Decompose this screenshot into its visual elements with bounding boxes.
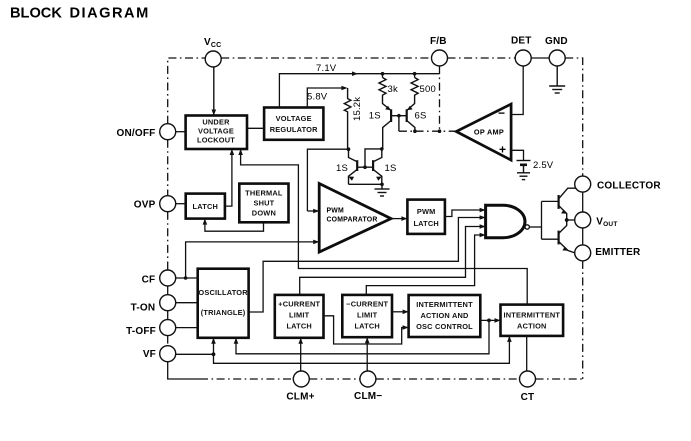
box U12 INTERMITTENT ACTION AND OSC CONTROL: [409, 295, 481, 337]
wire UVL-IA long net: [238, 149, 527, 305]
svg-text:COMPARATOR: COMPARATOR: [327, 217, 378, 224]
svg-text:−CURRENT: −CURRENT: [346, 299, 388, 308]
wire 7.1V net: [279, 71, 439, 107]
transistor Q2 6S (PNP right): [407, 96, 415, 131]
svg-text:PWM: PWM: [417, 207, 436, 216]
pin OVP: [134, 196, 176, 212]
wire comparator to PWM LATCH with arrow: [391, 216, 407, 221]
wire NAND input 3 (+current latch net): [300, 224, 486, 295]
node dot base tie: [397, 114, 401, 118]
wire VOUT node to pin: [567, 219, 575, 221]
svg-text:CT: CT: [521, 392, 535, 403]
wire VF net to intermittent action (bottom feedback): [214, 336, 512, 363]
svg-text:ACTION: ACTION: [517, 321, 547, 330]
svg-text:7.1V: 7.1V: [316, 63, 337, 74]
svg-text:3k: 3k: [388, 84, 398, 95]
wire vout-emitter link: [582, 228, 584, 245]
pin DET: [511, 36, 532, 67]
pin VF: [143, 346, 176, 362]
svg-text:T-ON: T-ON: [131, 302, 156, 313]
wire CF to oscillator: [176, 277, 198, 279]
svg-text:OVP: OVP: [134, 200, 156, 211]
svg-text:EMITTER: EMITTER: [595, 247, 641, 258]
node dot VOUT: [565, 218, 569, 222]
top bus dash-dot wire: [168, 58, 583, 176]
svg-text:LIMIT: LIMIT: [357, 310, 378, 319]
NAND gate U8: [486, 205, 530, 237]
op-amp U3: [456, 104, 511, 160]
svg-text:REGULATOR: REGULATOR: [270, 125, 318, 134]
wire NAND input 2 (oscillator net): [249, 215, 486, 312]
svg-text:LOCKOUT: LOCKOUT: [197, 136, 235, 145]
wire UVL to VOLTAGE REGULATOR: [247, 127, 264, 129]
wire PWM LATCH to NAND input 1: [445, 208, 486, 217]
svg-text:OSCILLATOR: OSCILLATOR: [198, 288, 248, 297]
node dot F/B vertical: [438, 129, 442, 133]
transistor Q3 1S (NPN mirror left): [348, 149, 357, 184]
svg-text:VOLTAGE: VOLTAGE: [198, 127, 234, 136]
pin VOUT: [575, 212, 618, 228]
resistor R1 15.2k: [344, 88, 351, 149]
pin COLLECTOR: [575, 176, 662, 192]
ground symbol at 2.5V: [517, 173, 530, 180]
svg-text:COLLECTOR: COLLECTOR: [597, 180, 661, 191]
ground symbol at mirror: [375, 184, 390, 196]
pin CF: [142, 270, 176, 286]
wire collector pin link: [582, 192, 584, 212]
svg-text:LATCH: LATCH: [413, 219, 439, 228]
wire base tie Q1-Q2: [391, 116, 407, 132]
box U2 VOLTAGE REGULATOR: [264, 108, 323, 140]
pin F/B: [430, 36, 448, 66]
node dot CF: [184, 276, 188, 280]
box U5 THERMAL SHUT DOWN: [239, 184, 288, 223]
pin T-OFF: [126, 320, 176, 337]
svg-text:15.2k: 15.2k: [352, 97, 363, 121]
box U1 UNDER VOLTAGE LOCKOUT: [186, 116, 247, 150]
svg-text:VF: VF: [143, 349, 156, 360]
box U13 INTERMITTENT ACTION: [501, 305, 564, 336]
svg-text:+: +: [499, 143, 506, 157]
node dot 15.2k bottom: [347, 147, 351, 151]
wire +C latch to IAOC: [324, 316, 409, 344]
svg-text:1S: 1S: [369, 111, 381, 122]
wire T-OFF to oscillator: [176, 327, 198, 329]
svg-text:1S: 1S: [336, 163, 348, 174]
wire -C latch to IAOC with arrow: [392, 310, 409, 315]
wire THERMAL SHUT DOWN to LATCH with arrow: [203, 219, 264, 232]
pin GND: [545, 36, 568, 66]
pin EMITTER: [575, 245, 641, 261]
svg-text:CLM−: CLM−: [354, 391, 382, 402]
box U10 +CURRENT LIMIT LATCH: [275, 295, 324, 338]
transistor Q1 1S (PNP left): [383, 96, 392, 148]
pin ON/OFF: [117, 124, 176, 140]
transistor Q4 1S (NPN mirror right, diode connected): [373, 149, 382, 184]
svg-text:THERMAL: THERMAL: [245, 189, 283, 198]
wire CLM+ to +C latch with arrow: [298, 338, 303, 371]
svg-text:LIMIT: LIMIT: [289, 310, 310, 319]
svg-text:INTERMITTENT: INTERMITTENT: [416, 300, 473, 309]
svg-text:F/B: F/B: [430, 36, 447, 47]
battery B1 2.5V: [517, 161, 531, 173]
wire DET to op-amp minus input: [511, 66, 523, 115]
svg-text:SHUT: SHUT: [253, 199, 274, 208]
svg-text:UNDER: UNDER: [202, 118, 230, 127]
right bus wire (emitter to bottom corner): [582, 261, 584, 379]
svg-text:OSC CONTROL: OSC CONTROL: [416, 322, 473, 331]
wire 5.8V net: [307, 86, 347, 108]
node dot IAOC output: [487, 319, 491, 323]
svg-text:GND: GND: [545, 36, 568, 47]
box U9 OSCILLATOR (TRIANGLE): [198, 269, 249, 338]
svg-text:LATCH: LATCH: [286, 321, 312, 330]
wire CT to IA: [526, 336, 528, 371]
svg-text:CF: CF: [142, 274, 156, 285]
node dot mirror base: [363, 165, 367, 169]
box U11 -CURRENT LIMIT LATCH: [342, 295, 392, 337]
wire comparator input 2 (CF net): [186, 240, 320, 278]
wire VF to junction: [176, 353, 214, 355]
node dot mirror right collector: [380, 147, 384, 151]
wire NAND input 4 (-current latch net): [366, 233, 485, 295]
wire ON/OFF to UVL: [176, 131, 186, 133]
wire op-amp plus input to 2.5V: [511, 150, 523, 160]
transistor Q6 (lower output NPN): [559, 220, 575, 253]
svg-text:ON/OFF: ON/OFF: [117, 128, 156, 139]
pin T-ON: [131, 295, 176, 314]
svg-text:DOWN: DOWN: [252, 209, 276, 218]
wire OVP to LATCH: [176, 203, 186, 205]
node dot 6S collector: [413, 129, 417, 133]
svg-text:LATCH: LATCH: [193, 202, 219, 211]
wire mirror emitter rail: [349, 183, 383, 185]
wire CLM- to -C latch with arrow: [365, 337, 370, 371]
box U4 LATCH: [186, 194, 225, 219]
svg-text:INTERMITTENT: INTERMITTENT: [504, 310, 561, 319]
node dot 500 top: [413, 72, 417, 76]
svg-text:LATCH: LATCH: [354, 321, 380, 330]
transistor Q5 (upper output NPN): [559, 188, 577, 220]
svg-text:CLM+: CLM+: [286, 392, 314, 403]
svg-text:+CURRENT: +CURRENT: [278, 299, 320, 308]
wire NAND output to driver bases: [530, 201, 559, 239]
svg-text:ACTION AND: ACTION AND: [420, 311, 469, 320]
svg-text:6S: 6S: [415, 110, 427, 121]
ground symbol at GND pin: [549, 66, 565, 93]
resistor R2 3k: [379, 74, 386, 96]
pin VCC: [204, 37, 221, 67]
wire T-ON to oscillator: [176, 302, 198, 304]
comparator U6 PWM COMPARATOR: [319, 184, 391, 253]
svg-text:PWM: PWM: [327, 208, 344, 215]
pin CT: [520, 371, 536, 403]
svg-text:OP AMP: OP AMP: [474, 128, 504, 137]
svg-text:VOLTAGE: VOLTAGE: [276, 114, 312, 123]
wire F/B vertical (dash-dot): [439, 66, 441, 131]
svg-text:−: −: [498, 106, 505, 120]
svg-text:(TRIANGLE): (TRIANGLE): [201, 308, 246, 317]
svg-text:2.5V: 2.5V: [533, 160, 554, 171]
wire IAOC feedback to oscillator: [234, 320, 489, 353]
box U7 PWM LATCH: [407, 200, 445, 234]
wire 15.2k node to comparator riser: [307, 149, 348, 211]
wire VCC to UVL with arrow: [212, 67, 217, 116]
node dot VF: [212, 352, 216, 356]
wire mirror base tie: [357, 149, 382, 167]
pin CLM+: [286, 371, 314, 403]
bottom bus wire: [200, 378, 583, 380]
pin CLM-: [354, 371, 382, 402]
svg-text:DIAGRAM: DIAGRAM: [70, 6, 150, 22]
svg-text:DET: DET: [511, 36, 532, 47]
wire LATCH to UVL with arrow: [225, 149, 234, 206]
node dot 3k top: [381, 72, 385, 76]
svg-text:500: 500: [420, 84, 436, 95]
left bus wire: [168, 140, 200, 379]
svg-text:1S: 1S: [385, 163, 397, 174]
wire VF junction up into oscillator with arrow: [211, 338, 216, 355]
svg-text:BLOCK: BLOCK: [10, 6, 62, 22]
wire comparator input 1 arrow: [307, 209, 319, 214]
resistor R3 500: [411, 74, 418, 96]
svg-text:T-OFF: T-OFF: [126, 326, 156, 337]
svg-text:5.8V: 5.8V: [307, 92, 328, 103]
wire IAOC to IA with arrow: [480, 318, 500, 323]
wire node line to op amp (dash-dot): [399, 130, 456, 132]
node dot emitter rail: [380, 183, 384, 187]
